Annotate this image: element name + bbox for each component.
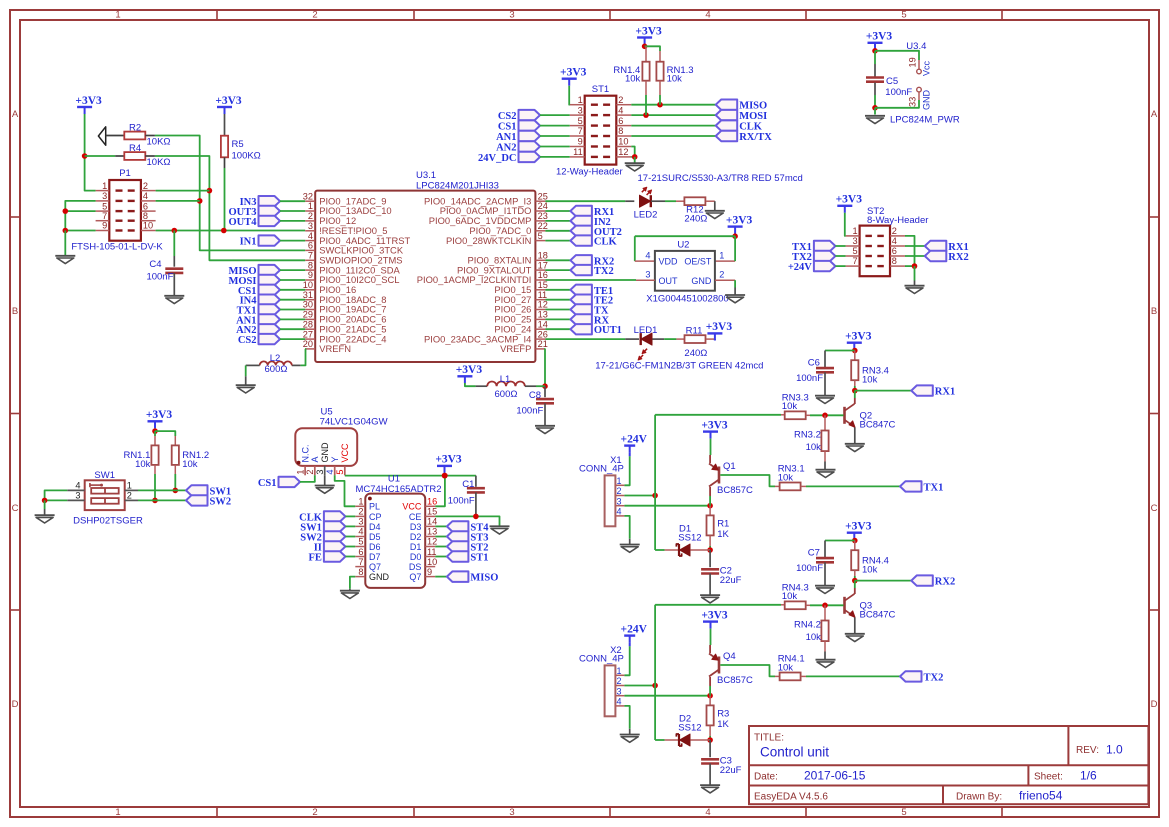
wire C6 gnd [824,372,826,395]
wire Q4 base to RN4.1 [720,665,775,676]
svg-text:4: 4 [618,105,623,115]
svg-text:6: 6 [892,246,897,256]
svg-text:5: 5 [852,246,857,256]
wire C6 top [824,351,826,368]
U3.1 left pin 9 PIO0_10I2C0_SCL [305,270,399,285]
RN1.1 bottom lead [154,465,156,474]
resistor RN3.4 [851,360,858,380]
wire C5 top [874,51,876,64]
svg-text:Sheet:: Sheet: [1034,772,1063,783]
svg-text:MISO: MISO [739,101,767,112]
svg-text:8: 8 [143,211,148,221]
wire C8 to ground [544,403,546,425]
svg-text:17-21SURC/S530-A3/TR8 RED 57mc: 17-21SURC/S530-A3/TR8 RED 57mcd [638,173,803,184]
wire U3.1 to RX2 [545,259,570,261]
svg-text:10: 10 [303,280,313,290]
wire RN1.3 to MISO [659,95,661,105]
ground C8 [535,426,555,434]
wire IN4 to U3.1 [280,299,305,301]
wire U3.1 to TX2 [545,269,570,271]
wire [854,576,856,581]
connector X1 CONN_4P [579,455,624,526]
svg-text:+3V3: +3V3 [146,409,173,421]
wire to RN1.3 top [645,46,660,51]
svg-text:10k: 10k [667,74,683,85]
junction +3V3 Q3 [852,538,858,544]
wire C2 stem [709,550,711,567]
svg-text:D0: D0 [410,552,422,562]
wire U3.1 pin16 to U2 OUT [545,279,636,281]
svg-text:3: 3 [308,221,313,231]
net flag TE2 [570,295,613,307]
net flag AN1 [496,131,540,143]
U1 left pin 3 D4 [355,517,380,532]
RN1.3 bottom lead [659,81,661,95]
svg-text:CONN_4P: CONN_4P [579,654,624,665]
U3.1 left pin 20 VREFN [303,339,351,354]
net flag AN1 [236,314,280,326]
R12 left lead [676,200,684,202]
reset arrow symbol [98,127,105,145]
X2 pin 3 [615,686,624,696]
resistor RN4.2 [821,621,828,642]
U3.1 right pin 11 PIO0_27 [494,290,547,305]
wire L2 gnd stem [245,376,247,385]
resistor RN1.2 [172,445,179,465]
svg-text:D: D [12,699,19,710]
svg-text:1: 1 [308,201,313,211]
junction RN1.4 bottom [643,112,649,118]
transistor Q1 BC857C [709,461,753,496]
svg-text:CS2: CS2 [238,335,257,346]
svg-text:C1: C1 [462,479,474,490]
wire ST2 pin2 to gnd net [905,236,915,266]
svg-text:12: 12 [618,147,628,157]
wire Q2 emitter [854,428,856,444]
wire Q1 collector [709,487,711,496]
wire +3V3 stem [644,45,646,47]
wire LED2 cathode [651,200,665,202]
R2 right lead [145,135,155,137]
ground ST2 [905,286,925,294]
wire U1 to ST4 [435,525,447,527]
power flag +24V X1 [621,433,648,452]
svg-text:ST1: ST1 [470,553,488,564]
wire AN2 to U3.1 [280,328,305,330]
wire SW2 to U1 [345,536,355,538]
wire R12 to ground [714,201,716,210]
RN1.4 top lead [645,46,647,62]
svg-text:14: 14 [538,319,548,329]
svg-text:VCC: VCC [402,502,422,512]
svg-text:10k: 10k [625,74,641,85]
svg-text:AN1: AN1 [496,132,516,143]
svg-text:+3V3: +3V3 [836,194,863,206]
net flag RX [570,314,609,326]
X2 pin 1 [615,666,624,676]
wire RN3.3 to base [810,414,844,416]
power flag +3V3 [726,214,753,233]
resistor RN4.4 [851,550,858,570]
junction P1 pin9 [63,228,69,234]
R5 bottom lead [224,157,226,168]
svg-text:1: 1 [358,497,363,507]
svg-text:5: 5 [578,116,583,126]
svg-text:+3V3: +3V3 [701,419,728,431]
wire to D1 [655,549,665,551]
U1 left pin 8 GND [355,567,389,582]
svg-text:20: 20 [303,339,313,349]
svg-text:LED2: LED2 [634,210,658,221]
svg-text:BC857C: BC857C [717,485,753,496]
wire to U2 VDD [634,236,636,261]
wire R5 to reset net [224,168,226,231]
wire TX1 to ST2 [835,245,845,247]
svg-text:8-Way-Header: 8-Way-Header [867,215,928,226]
svg-text:+3V3: +3V3 [435,454,462,466]
junction RN1.2 [173,488,179,494]
svg-text:12: 12 [427,537,437,547]
svg-text:9: 9 [308,270,313,280]
svg-text:LPC824M_PWR: LPC824M_PWR [890,114,960,125]
capacitor C6 [816,368,834,372]
U3.1 left pin 10 PIO0_16 [303,280,356,295]
U1 gnd stem [349,589,351,591]
net flag OUT4 [228,216,280,228]
U3.1 left pin 31 PIO0_18ADC_8 [303,290,387,305]
svg-text:10KΩ: 10KΩ [147,137,171,148]
svg-text:100nF: 100nF [796,373,823,384]
junction D1 C2 [707,547,713,553]
U1 right pin 9 Q7 [409,567,435,582]
svg-text:GND: GND [320,442,330,463]
svg-text:OUT1: OUT1 [594,325,622,336]
power flag +3V3 [215,95,242,114]
svg-text:A: A [310,456,320,462]
svg-text:VREFP: VREFP [500,343,531,354]
net flag TX2 [570,265,613,277]
power flag +3V3 [435,454,462,473]
wire [854,386,856,391]
svg-text:FE: FE [308,553,321,564]
switch SW1 DSHP02TSGER [73,470,143,527]
svg-text:27: 27 [303,329,313,339]
ground RN3.2 [816,470,836,478]
wire ST2 pin4 to RX1 [905,245,925,247]
svg-text:1K: 1K [717,529,729,540]
svg-text:4: 4 [358,527,363,537]
junction RX2 [852,578,858,584]
X1 pin 3 [615,496,624,506]
junction C5 bottom [872,105,878,111]
wire U1 gnd [350,577,355,589]
wire MOSI to U3.1 [280,279,305,281]
ground U1 [340,591,360,599]
wire +24V to X1 pin1 [624,456,629,485]
U1 right pin 11 D0 [410,547,437,562]
wire Q1 base to RN3.1 [720,475,775,486]
svg-text:10k: 10k [782,401,798,412]
svg-text:Control unit: Control unit [760,745,829,760]
svg-text:frieno54: frieno54 [1019,789,1063,803]
inductor L2 [260,361,292,365]
resistor R12 [684,197,705,205]
wire +24V stem [629,643,631,647]
svg-text:+24V: +24V [621,433,648,445]
svg-text:5: 5 [335,469,345,474]
resistor R11 [685,335,706,343]
ST2 gnd stem [914,281,916,286]
wire +24V to ST2 [835,265,845,267]
power flag +3V3 [560,67,587,86]
net flag IN4 [240,295,280,307]
wire U3.1 to RX1 [545,210,570,212]
resistor RN4.3 [785,601,806,609]
svg-text:4: 4 [705,10,710,21]
svg-text:21: 21 [538,339,548,349]
wire to ground [634,157,636,163]
svg-text:R1: R1 [717,519,729,530]
svg-text:+3V3: +3V3 [456,364,483,376]
svg-text:TX2: TX2 [594,266,614,277]
RN1.2 top lead [174,436,176,445]
wire Q3 collector [854,581,856,588]
svg-text:31: 31 [303,290,313,300]
U3.1 right pin 24 PIO0_0ACMP_I1TDO [440,201,548,216]
wire U1 Q7 to MISO [435,576,447,578]
wire Q2 collector [854,391,856,398]
junction RN1.1 top [152,428,158,434]
wire to ground [874,108,876,115]
svg-text:U3.4: U3.4 [906,41,926,52]
RN1.1 top lead [154,436,156,445]
svg-text:4: 4 [325,469,335,474]
ground L2 [236,385,256,393]
wire Q3 emitter [854,618,856,634]
svg-text:C: C [12,503,19,514]
wire [709,546,711,550]
svg-text:+3V3: +3V3 [726,214,753,226]
wire U3.1 to RX [545,318,570,320]
R11 right lead [706,338,715,340]
svg-text:100nF: 100nF [796,563,823,574]
net flag CLK [299,511,345,523]
wire ST1 to MOSI [631,114,715,116]
svg-text:BC847C: BC847C [860,419,896,430]
wire [709,736,711,740]
wire AN1 to ST1 [540,135,570,137]
svg-text:4: 4 [892,236,897,246]
svg-text:Y: Y [330,456,340,462]
wire L2 to ground [245,365,247,376]
svg-text:RN4.2: RN4.2 [794,619,821,630]
svg-text:+3V3: +3V3 [215,95,242,107]
U1 right pin 15 CE [409,507,437,522]
svg-text:1: 1 [296,469,306,474]
svg-text:4: 4 [75,480,80,490]
capacitor C5 [866,78,884,82]
svg-text:+3V3: +3V3 [635,25,662,37]
ground C6 [815,396,835,404]
X1 pin 2 [615,486,624,496]
resistor R1 [707,515,714,535]
svg-text:5: 5 [901,10,906,21]
svg-text:2: 2 [618,95,623,105]
svg-text:L2: L2 [270,353,281,364]
net flag RX1 [925,241,969,253]
wire X1 pin3 [624,505,710,507]
svg-text:74LVC1G04GW: 74LVC1G04GW [320,417,388,428]
power flag +3V3 [456,364,483,383]
wire C1 top stem [475,476,477,487]
U3.1 left pin 28 PIO0_21ADC_5 [303,319,387,334]
wire P1 pin10 to RESET [156,230,306,232]
wire U2 top rail [635,235,735,237]
wire U5 Y to U1 PL [335,475,356,506]
wire P1 pin2 [156,190,210,192]
wire R4 to SWDIO [155,156,305,260]
net flag ST1 [447,551,489,563]
svg-text:R2: R2 [129,123,141,134]
U3.1 left pin 2 PIO0_12 [305,211,356,226]
U3.1 right pin 12 PIO0_26 [494,300,547,315]
net flag IN3 [240,196,280,208]
wire U3.1 to TX [545,309,570,311]
wire to C6 [825,350,855,352]
svg-text:P1: P1 [119,168,131,179]
svg-text:13: 13 [427,527,437,537]
svg-text:2: 2 [719,270,724,280]
D2 anode lead [691,739,711,741]
wire P1 pin3 to gnd net [65,201,95,231]
SW1 gnd stem [44,509,46,515]
svg-text:7: 7 [852,256,857,266]
transistor Q2 BC847C [845,404,896,431]
wire 24V_DC to ST1 [540,156,570,158]
svg-text:Q7: Q7 [369,562,381,572]
capacitor C8 [536,399,554,403]
wire X1 pin4 to gnd [624,516,629,539]
U3.1 left pin 8 PIO0_11I2C0_SDA [305,260,400,275]
svg-text:24V_DC: 24V_DC [478,153,517,164]
svg-text:10k: 10k [862,564,878,575]
svg-text:30: 30 [303,300,313,310]
RN4.4 bottom lead [854,570,856,576]
junction U2 vdd [732,233,738,239]
wire X2 pin4 to gnd [624,706,629,729]
U3.1 left pin 29 PIO0_20ADC_6 [303,310,387,325]
net flag ST4 [447,521,489,533]
power flag +24V X2 [621,623,648,642]
U1 left pin 6 D7 [355,547,380,562]
net flag MISO [228,265,280,277]
D2 cathode lead [665,739,678,741]
svg-text:C6: C6 [808,358,820,369]
RN4.4 top lead [854,541,856,551]
svg-text:CS1: CS1 [498,122,517,133]
ground U5 [315,486,335,494]
svg-text:R3: R3 [717,709,729,720]
svg-text:C7: C7 [808,548,820,559]
RN4.2 bottom lead [824,641,826,651]
svg-text:EasyEDA V4.5.6: EasyEDA V4.5.6 [754,792,828,803]
svg-text:RX2: RX2 [948,252,968,263]
wire C2 gnd [709,574,711,595]
junction SW1 gnd [42,498,48,504]
svg-text:+3V3: +3V3 [560,67,587,79]
wire RN1.1 to SW2 net [154,474,156,500]
svg-text:25: 25 [538,191,548,201]
net flag MISO [716,100,768,112]
wire SW1 pin4 [45,490,68,500]
svg-text:RX1: RX1 [935,387,955,398]
R12 right lead [706,200,715,202]
svg-text:23: 23 [538,211,548,221]
wire OUT4 to U3.1 [280,220,305,222]
svg-text:BC857C: BC857C [717,675,753,686]
ground ST1 [625,163,645,171]
RN4.1 left lead [775,675,784,677]
U2 OE/ST lead [715,260,735,262]
U2 gnd stem [734,288,736,295]
wire C7 top [824,541,826,558]
net flag TX [570,304,609,316]
svg-text:ST1: ST1 [592,84,609,95]
ground SW1 [35,515,55,523]
svg-text:9: 9 [427,567,432,577]
wire AN2 to ST1 [540,146,570,148]
resistor RN1.3 [656,62,663,81]
svg-text:32: 32 [303,191,313,201]
wire R2 to SWCLK [155,136,305,251]
svg-text:3: 3 [102,191,107,201]
wire collector to R [709,496,711,506]
svg-text:600Ω: 600Ω [265,364,288,375]
power flag +3V3 [146,409,173,428]
U3.4 GND pin [918,92,920,100]
net flag CLK [570,235,617,247]
svg-text:MC74HC165ADTR2: MC74HC165ADTR2 [356,484,442,495]
net flag SW1 [186,485,231,497]
svg-text:10: 10 [143,221,153,231]
wire +3V3 to ST1 pin1 [568,86,571,105]
U3.1 right pin 5 PIO0_28WKTCLKIN [446,231,545,246]
svg-text:3: 3 [75,490,80,500]
svg-text:BC847C: BC847C [860,609,896,620]
U1 right pin 14 D3 [410,517,437,532]
svg-text:18: 18 [538,251,548,261]
LED LED2 [640,187,652,207]
junction +3V3 rail [442,473,448,479]
svg-text:240Ω: 240Ω [684,213,707,224]
wire to ground [64,231,66,256]
svg-text:6: 6 [308,241,313,251]
RN3.1 right lead [801,485,806,487]
wire +24V stem [629,453,631,457]
net flag AN2 [496,141,540,153]
wire +3V3 to Q1 emitter [710,439,712,455]
svg-text:4: 4 [617,507,622,517]
SW1 pin 3/2 [67,490,138,500]
svg-text:29: 29 [303,310,313,320]
svg-text:GND: GND [922,90,932,111]
svg-text:PIO0_28WKTCLKIN: PIO0_28WKTCLKIN [446,235,531,246]
svg-text:3: 3 [358,517,363,527]
svg-text:X1G004451002800: X1G004451002800 [646,293,728,304]
wire X2 pin2 vertical [654,605,656,740]
wire C5 bottom stem [874,83,876,95]
resistor RN4.1 [780,673,801,681]
